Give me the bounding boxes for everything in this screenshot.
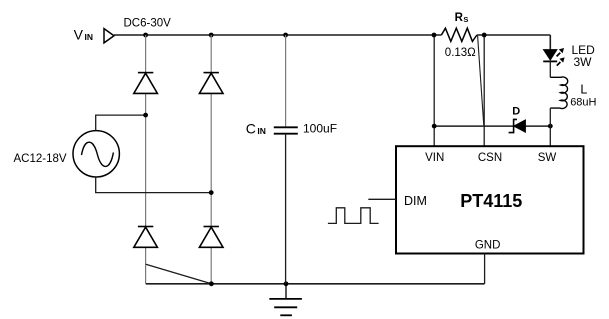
wire inductor to SW node	[549, 108, 551, 126]
svg-text:IN: IN	[257, 126, 266, 136]
wire left bridge branch	[145, 35, 147, 284]
svg-text:IN: IN	[85, 32, 94, 42]
label VIN input	[74, 27, 93, 43]
svg-text:S: S	[463, 15, 468, 24]
svg-text:68uH: 68uH	[570, 97, 596, 109]
wire bottom rail	[146, 283, 485, 285]
svg-text:C: C	[246, 120, 256, 136]
node SW junction	[548, 124, 553, 129]
wire GND pin	[484, 254, 486, 284]
node rail left branch	[143, 33, 148, 38]
wire CSN pin vertical	[483, 35, 485, 146]
wire DIM	[368, 198, 396, 200]
wire AC bottom	[96, 177, 212, 193]
wire sense slant from RS right end to CSN	[478, 36, 484, 126]
wire right bridge branch	[210, 35, 212, 284]
svg-text:AC12-18V: AC12-18V	[14, 153, 67, 165]
svg-text:GND: GND	[475, 239, 501, 251]
svg-text:CSN: CSN	[478, 152, 502, 164]
LED symbol	[543, 48, 564, 66]
wire mid horizontal VIN-D-SW	[434, 125, 550, 127]
svg-text:DIM: DIM	[404, 194, 427, 208]
node rail right branch	[209, 33, 214, 38]
node rail RS right	[482, 33, 487, 38]
svg-text:3W: 3W	[574, 55, 593, 69]
svg-text:PT4115: PT4115	[460, 191, 522, 211]
node VIN mid junction	[432, 124, 437, 129]
wire diagonal	[146, 264, 212, 284]
node ground junction	[284, 281, 289, 286]
inductor L coil	[550, 77, 567, 108]
wire LED to inductor	[549, 61, 551, 77]
bridge diode bottom-right	[199, 227, 223, 248]
IC U1 PT4115 box	[396, 146, 584, 253]
wire AC top	[96, 115, 146, 131]
node rail RS left	[432, 33, 437, 38]
AC source circle	[73, 131, 119, 177]
label CIN	[246, 120, 266, 136]
bridge diode bottom-left	[134, 227, 158, 248]
wire SW pin vertical	[549, 126, 551, 146]
svg-text:DC6-30V: DC6-30V	[124, 18, 172, 30]
svg-text:SW: SW	[538, 152, 557, 164]
wire top rail	[114, 35, 550, 50]
bridge diode top-left	[134, 73, 158, 94]
node AC bottom junction	[209, 190, 214, 195]
svg-text:L: L	[580, 82, 587, 96]
resistor RS zigzag	[441, 28, 477, 41]
svg-text:V: V	[74, 27, 84, 43]
ground symbol	[269, 284, 302, 316]
bridge diode top-right	[199, 73, 223, 94]
diode D schottky	[509, 119, 526, 132]
svg-text:R: R	[455, 12, 464, 24]
wire CIN top	[285, 35, 287, 126]
svg-text:D: D	[512, 105, 520, 117]
node AC top junction	[143, 113, 148, 118]
node rail CIN	[283, 33, 288, 38]
node bottom right branch	[209, 281, 214, 286]
input marker triangle VIN	[104, 29, 114, 43]
svg-text:VIN: VIN	[425, 152, 444, 164]
label RS	[455, 12, 469, 24]
capacitor CIN	[274, 127, 298, 133]
svg-text:0.13Ω: 0.13Ω	[445, 47, 476, 59]
wire VIN pin vertical	[433, 35, 435, 146]
svg-text:100uF: 100uF	[303, 121, 337, 135]
wire CIN bottom	[285, 135, 287, 284]
PWM waveform	[328, 208, 379, 224]
